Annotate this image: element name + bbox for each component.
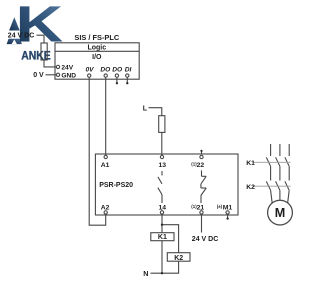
svg-text:K2: K2 <box>246 184 255 191</box>
svg-text:22: 22 <box>197 162 205 169</box>
wire 24VDC label to fuse F1 <box>37 35 45 43</box>
wire F2 to terminal 13 <box>161 132 163 155</box>
svg-text:M1: M1 <box>223 204 233 211</box>
terminal 13 <box>160 155 163 158</box>
coil K1 <box>151 233 174 241</box>
terminal DO2 circle and stub <box>116 77 118 82</box>
three-phase line L2 <box>279 144 281 156</box>
coil K2 <box>167 253 190 262</box>
terminal A2 <box>104 211 107 214</box>
svg-text:SIS / FS-PLC: SIS / FS-PLC <box>74 33 119 42</box>
wire 0V label to GND terminal <box>46 74 57 76</box>
fuse F1 <box>41 43 47 60</box>
svg-text:PSR-PS20: PSR-PS20 <box>99 182 133 189</box>
svg-text:I/O: I/O <box>92 54 102 61</box>
terminal M1 stub <box>227 214 229 218</box>
svg-text:13: 13 <box>159 162 167 169</box>
terminal M1 <box>226 211 229 214</box>
svg-text:K1: K1 <box>158 234 167 241</box>
wire F1 to 24V terminal <box>44 60 56 67</box>
branch wire to K2 <box>162 225 179 253</box>
terminal 24V circle <box>56 65 59 68</box>
terminal 22 stub <box>201 151 203 154</box>
PLC box SIS/FS-PLC <box>55 43 139 79</box>
svg-text:K: K <box>16 0 64 53</box>
svg-text:N: N <box>143 269 148 278</box>
svg-text:K2: K2 <box>174 255 183 262</box>
label 14 (with mask) <box>157 203 168 210</box>
svg-text:DI: DI <box>125 67 132 74</box>
wire 0V rail to A2 <box>89 79 106 225</box>
svg-text:M: M <box>275 206 286 220</box>
junction dot at 14 branch <box>161 224 163 226</box>
watermark logo triangle A <box>7 17 22 44</box>
terminal DO1 circle <box>105 77 107 79</box>
K1 mechanical link line <box>253 161 291 163</box>
svg-text:A1: A1 <box>101 162 110 169</box>
svg-text:14: 14 <box>159 204 167 211</box>
junction dot at N rail <box>161 272 163 274</box>
terminal A1 <box>104 155 107 158</box>
wire 21 to 24VDC <box>201 214 203 232</box>
svg-text:Logic: Logic <box>87 45 106 52</box>
wire 14 to N rail <box>161 214 163 273</box>
svg-text:21: 21 <box>197 204 205 211</box>
three-phase line L3 <box>288 144 290 156</box>
svg-text:24V: 24V <box>61 65 73 72</box>
label (1)21 (with mask) <box>190 203 207 210</box>
motor M circle <box>268 200 293 225</box>
relay box PSR-PS20 <box>95 154 238 215</box>
svg-text:K1: K1 <box>246 160 255 167</box>
wire DO1 to A1 <box>105 79 107 155</box>
watermark logo K <box>16 0 64 53</box>
svg-text:24 V DC: 24 V DC <box>8 32 34 39</box>
Logic section divider <box>55 50 139 52</box>
K2 mechanical link line <box>253 185 291 187</box>
terminal 22 <box>200 155 203 158</box>
terminal 21 <box>200 211 203 214</box>
three-phase line L1 <box>270 144 272 156</box>
terminal 14 <box>160 211 163 214</box>
fuse F2 <box>159 116 165 133</box>
svg-text:0 V: 0 V <box>33 72 44 79</box>
svg-text:L: L <box>143 105 148 112</box>
terminal 0V circle <box>88 77 90 79</box>
svg-text:24 V DC: 24 V DC <box>192 236 218 243</box>
wire L to fuse F2 <box>149 108 162 116</box>
NC contact pair between 22 and 21 <box>201 170 203 176</box>
NO contact pair between 13 and 14 <box>161 171 163 175</box>
terminal DI circle and stub <box>126 77 128 82</box>
svg-text:DO: DO <box>100 67 111 74</box>
svg-text:0V: 0V <box>85 67 94 74</box>
terminal GND circle <box>56 73 59 76</box>
svg-text:DO: DO <box>112 67 123 74</box>
watermark wordmark ANKE <box>21 48 51 62</box>
svg-text:A2: A2 <box>101 204 110 211</box>
svg-text:GND: GND <box>61 73 76 80</box>
